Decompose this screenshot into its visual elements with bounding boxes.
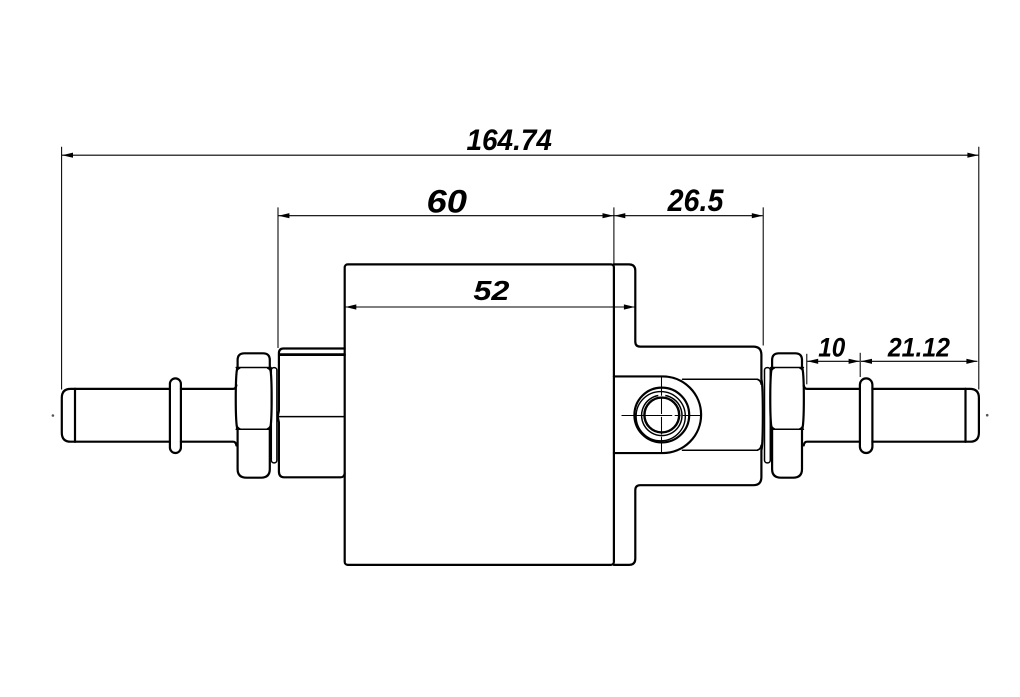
right stem nose cap	[966, 389, 979, 442]
right nut chamfer wedges	[771, 368, 804, 429]
dimension 60 line	[278, 215, 614, 217]
right nut middle face right edge	[802, 368, 804, 430]
dimension 26.5 line	[614, 215, 763, 217]
right nut bottom face	[772, 430, 802, 478]
dimension 21.12 arrow right	[966, 359, 977, 364]
svg-text:60: 60	[426, 184, 466, 220]
port boss	[614, 376, 701, 453]
dimension 164.74 line	[62, 154, 978, 156]
dimension 21.12 line	[861, 360, 977, 362]
left nut middle face left edge	[236, 368, 238, 430]
dimension 164.74 arrow left	[62, 153, 73, 158]
right stem tube segment 1 top	[804, 385, 860, 389]
port centerline horizontal	[622, 415, 702, 417]
dimension 10 text	[818, 333, 846, 362]
dimension 60 arrow left	[278, 213, 289, 218]
left nut facet line upper	[236, 367, 271, 369]
svg-text:164.74: 164.74	[466, 125, 552, 158]
port thread circle	[636, 392, 685, 441]
right axis dot	[986, 414, 989, 417]
right stem tube segment 2 bottom	[872, 441, 965, 443]
dimension 26.5 text	[667, 184, 725, 219]
dimension 164.74 arrow right	[967, 153, 978, 158]
dimension 26.5 extension line right	[762, 207, 764, 345]
port inner circle	[644, 398, 679, 433]
right stem bead	[860, 378, 873, 453]
left nut bottom face	[238, 430, 270, 478]
dimension 60 text	[426, 184, 466, 220]
dimension 26.5 arrow right	[752, 213, 763, 218]
dimension 10 arrow right	[849, 359, 860, 364]
left axis dot	[52, 414, 55, 417]
right stem nose cap edge	[964, 389, 966, 442]
main body	[345, 264, 614, 565]
dimension 60 arrow right	[603, 213, 614, 218]
dimension 10 arrow left	[807, 359, 818, 364]
dimension 52 text	[473, 276, 509, 306]
port centerline vertical	[661, 376, 663, 455]
dimension 60/26.5 shared extension line	[613, 207, 615, 265]
dimension 52 arrow left	[345, 304, 356, 309]
left hex adapter outline	[278, 349, 345, 478]
svg-text:21.12: 21.12	[887, 334, 951, 363]
dimension 10 line	[807, 360, 859, 362]
svg-text:52: 52	[473, 276, 509, 306]
left nut chamfer wedges	[236, 368, 271, 429]
port thread arc	[642, 396, 682, 436]
right stem tube segment 2 top	[872, 388, 965, 390]
right washer	[765, 368, 771, 463]
dimension 21.12 text	[887, 334, 951, 363]
left stem tube segment 2 bottom	[181, 442, 237, 446]
left hex adapter top edge thick	[280, 353, 345, 356]
dimension 10 extension line left	[806, 354, 808, 385]
port block chamfer wedges	[757, 379, 761, 450]
left stem bead	[170, 378, 181, 453]
left stem nose cap edge	[74, 389, 76, 442]
left nut middle face right edge	[270, 368, 272, 430]
svg-text:26.5: 26.5	[667, 184, 725, 219]
left stem nose cap	[62, 389, 75, 442]
right nut facet line upper	[771, 367, 804, 369]
left stem tube segment 1 top	[75, 388, 170, 390]
left stem tube segment 1 bottom	[75, 441, 170, 443]
dimension 164.74 extension line left	[61, 147, 63, 390]
dimension 60 extension line left	[277, 207, 279, 348]
dimension 164.74 extension line right	[978, 147, 980, 390]
dimension 10/21.12 shared extension line	[859, 353, 861, 377]
dimension 26.5 arrow left	[614, 213, 625, 218]
left stem tube segment 2 top	[181, 385, 237, 389]
flange and port block outline	[614, 264, 763, 565]
dimension 52 line	[345, 306, 635, 308]
dimension 21.12 arrow left	[861, 359, 872, 364]
svg-text:10: 10	[818, 333, 846, 362]
left nut top face	[238, 353, 270, 367]
left washer	[271, 368, 277, 463]
port block facet line lower	[683, 449, 758, 451]
dimension 164.74 text	[466, 125, 552, 158]
right stem tube segment 1 bottom	[804, 442, 860, 446]
left hex adapter mid facet line	[279, 416, 344, 418]
left nut facet line lower	[236, 428, 271, 430]
port outer circle	[634, 388, 689, 443]
dimension 52 arrow right	[624, 304, 635, 309]
right nut facet line lower	[771, 428, 804, 430]
right nut top face	[772, 353, 802, 367]
right nut middle face left edge	[770, 368, 772, 430]
port block facet line upper	[683, 378, 758, 380]
